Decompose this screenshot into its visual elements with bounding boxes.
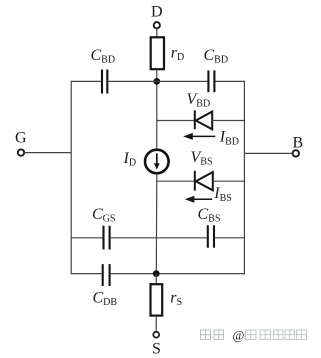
wire VBS to right rail (213, 180, 245, 182)
terminal G circle (18, 149, 24, 155)
wire mid-center segment (111, 237, 157, 239)
wire rS to S terminal (155, 316, 157, 332)
node top junction dot (153, 78, 160, 85)
svg-text:rD: rD (171, 45, 184, 64)
svg-text:B: B (292, 135, 303, 152)
wire top-right to rail (216, 80, 246, 82)
svg-text:ID: ID (123, 150, 137, 169)
diode VBD triangle (196, 112, 212, 130)
wire mid-left segment (71, 237, 102, 239)
capacitor CDB plates (102, 264, 104, 286)
svg-text:G: G (15, 130, 27, 147)
wire mid to right rail (215, 237, 244, 239)
svg-text:IBD: IBD (219, 129, 239, 148)
left rail (70, 81, 72, 274)
svg-text:rS: rS (170, 290, 182, 309)
wire VBD to right rail (212, 120, 244, 122)
svg-text:IBS: IBS (213, 185, 232, 204)
svg-text:S: S (152, 341, 161, 358)
diode VBD cathode bar (194, 110, 196, 129)
wire top-center segment (108, 80, 156, 82)
svg-text:CBD: CBD (91, 47, 116, 66)
wire center to VBD diode (157, 120, 195, 122)
wire B to right rail (244, 152, 292, 154)
node bottom junction dot (153, 270, 160, 277)
capacitor CBS plates (207, 225, 209, 247)
watermark zhihu text (201, 330, 224, 340)
right rail (243, 81, 245, 274)
current source arrow (156, 153, 158, 164)
svg-text:VBD: VBD (187, 91, 211, 110)
terminal D circle (154, 22, 160, 28)
wire current source down to bottom node (155, 173, 158, 273)
svg-text:CBS: CBS (198, 206, 221, 225)
wire mid-right segment (157, 237, 207, 239)
wire D to rD (156, 28, 158, 37)
terminal B circle (293, 150, 299, 156)
svg-text:CDB: CDB (93, 290, 118, 309)
diode VBS cathode bar (194, 171, 196, 191)
diode VBS triangle (196, 172, 213, 190)
wire top-right segment (157, 80, 208, 82)
svg-text:VBS: VBS (191, 149, 213, 168)
wire center to VBS diode (157, 180, 195, 182)
wire top-left segment (71, 80, 101, 82)
current arrow IBD (189, 135, 215, 137)
current source ID circle (145, 150, 169, 174)
wire G to left rail (24, 152, 71, 154)
capacitor CBD right plates (207, 70, 209, 92)
wire bottom to right rail (111, 273, 245, 275)
wire bottom-left segment (71, 273, 101, 275)
terminal S circle (153, 332, 159, 338)
wire node to rS (155, 274, 157, 285)
capacitor CGS plates (102, 226, 104, 250)
current arrow IBS (191, 198, 213, 200)
resistor rS (151, 284, 163, 315)
svg-text:@: @ (233, 328, 245, 343)
capacitor CBD left plates (101, 70, 103, 94)
resistor rD (151, 37, 164, 69)
svg-text:CBD: CBD (204, 47, 229, 66)
svg-text:CGS: CGS (92, 206, 115, 225)
svg-text:D: D (151, 4, 163, 21)
wire rD to node and down to current source (156, 69, 158, 150)
